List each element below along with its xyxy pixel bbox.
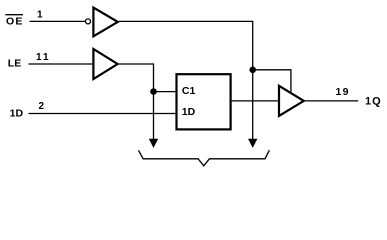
- tri-state buffer U4: [279, 86, 304, 116]
- input label OE (active low): [5, 15, 23, 28]
- wire 1D input: [29, 113, 176, 115]
- junction OE control node: [249, 67, 256, 74]
- svg-text:C1: C1: [182, 85, 196, 97]
- svg-text:OE: OE: [6, 16, 24, 28]
- inverter input bubble: [86, 19, 91, 24]
- underbrace to seven other channels: [139, 150, 270, 166]
- svg-text:11: 11: [36, 52, 51, 63]
- buffer U2 LE: [93, 49, 117, 79]
- svg-text:2: 2: [39, 101, 45, 112]
- wire OE control branch: [253, 70, 291, 93]
- svg-text:1Q: 1Q: [365, 95, 382, 107]
- wire LE input: [29, 63, 93, 65]
- wire OE input: [30, 20, 86, 22]
- wire OE net: [119, 21, 253, 139]
- wire LE to C1 pin: [154, 91, 176, 93]
- wire LE net: [119, 64, 154, 139]
- svg-text:LE: LE: [8, 58, 21, 70]
- arrowhead LE to other channels: [149, 139, 158, 148]
- junction LE node: [150, 88, 157, 95]
- wire output 1Q: [305, 100, 358, 102]
- latch U3 box: [177, 74, 231, 129]
- svg-text:1D: 1D: [10, 108, 24, 120]
- svg-text:19: 19: [336, 86, 350, 98]
- svg-text:1: 1: [37, 9, 43, 20]
- arrowhead OE to other channels: [248, 139, 257, 148]
- wire latch output: [232, 100, 278, 102]
- buffer U1 OE inverter: [93, 8, 117, 37]
- svg-text:1D: 1D: [182, 106, 196, 118]
